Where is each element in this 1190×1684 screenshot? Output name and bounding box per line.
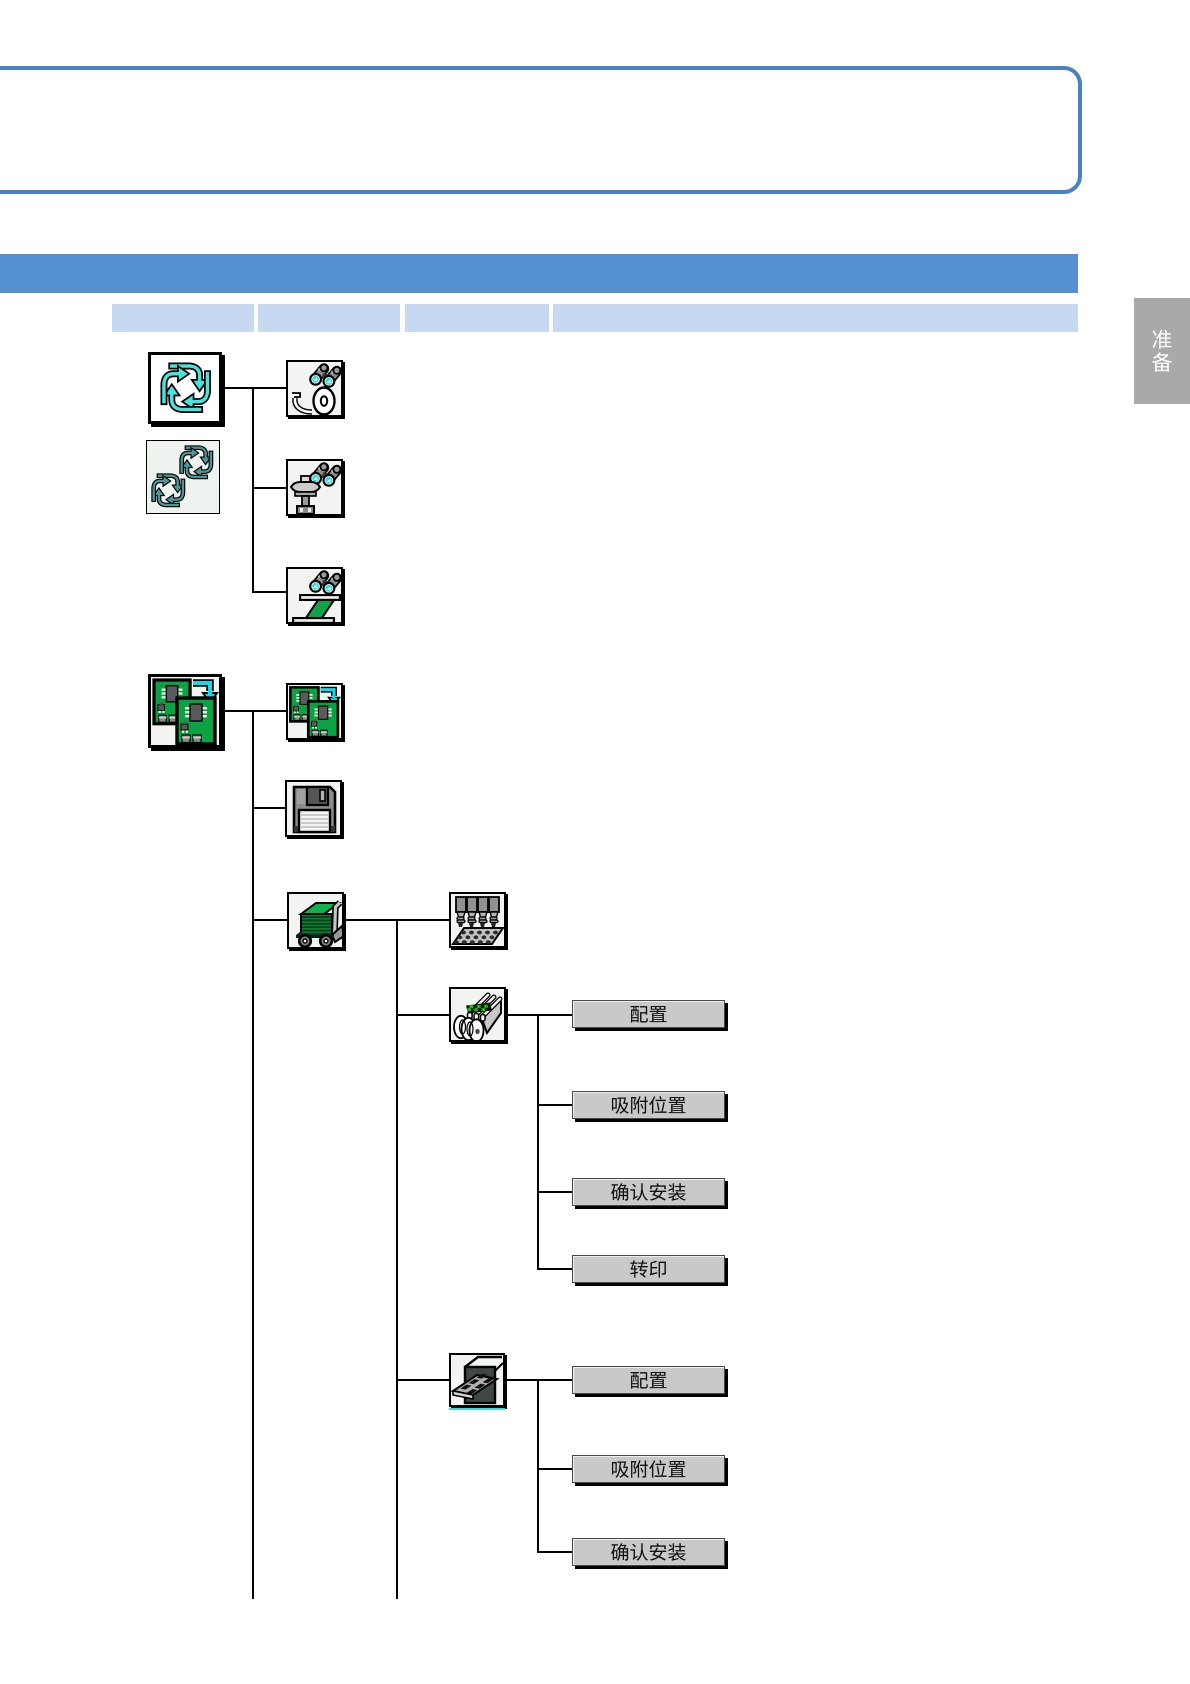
wire trunk2 to truck bbox=[252, 919, 288, 921]
icon board cart bbox=[287, 892, 344, 949]
button 吸附位置 bbox=[572, 1091, 725, 1119]
sidebar tab 准备 bbox=[1134, 298, 1190, 404]
wire trunk3 to feeder bbox=[396, 1014, 450, 1016]
icon feeder bbox=[449, 987, 506, 1042]
callout rounded box bbox=[0, 66, 1082, 194]
wire trunk1 to child C bbox=[252, 591, 287, 593]
wire truck to nozzle bbox=[344, 919, 450, 921]
button 转印 bbox=[572, 1255, 725, 1283]
wire trunk2 vertical bbox=[252, 710, 254, 1599]
wire trunk5 vertical bbox=[537, 1379, 539, 1553]
wire trunk4 to button 吸附位置 bbox=[537, 1104, 573, 1106]
wire trunk3 to tray bbox=[396, 1379, 450, 1381]
button 配置 bbox=[572, 1366, 725, 1394]
wire trunk1 vertical bbox=[252, 387, 254, 593]
wire trunk2 to floppy bbox=[252, 807, 287, 809]
icon check tape-reel bbox=[286, 360, 343, 417]
wire tray to buttons bbox=[505, 1379, 573, 1381]
icon tray bbox=[449, 1353, 505, 1407]
table header cells bbox=[112, 304, 254, 332]
wire trunk1 to child B bbox=[252, 487, 287, 489]
icon floppy save bbox=[285, 780, 342, 837]
icon check head bbox=[286, 459, 343, 516]
section title bar bbox=[0, 254, 1078, 293]
wire trunk3 vertical bbox=[396, 919, 398, 1599]
tray cyan underline bbox=[449, 1408, 505, 1410]
wire feeder to buttons bbox=[506, 1014, 573, 1016]
icon double-cycle bbox=[146, 440, 220, 514]
wire trunk5 to button 吸附位置2 bbox=[537, 1468, 573, 1470]
icon pcb-copy parent2 bbox=[148, 674, 222, 748]
wire trunk4 to button 转印 bbox=[537, 1268, 573, 1270]
wire parent2 to trunk2 bbox=[222, 710, 287, 712]
wire trunk5 to button 确认安装2 bbox=[537, 1551, 573, 1553]
wire trunk4 to button 确认安装 bbox=[537, 1191, 573, 1193]
wire parent1 to trunk1 bbox=[222, 387, 287, 389]
button 确认安装 bbox=[572, 1178, 725, 1206]
icon production-cycle parent1 bbox=[148, 352, 222, 424]
icon pcb-copy child bbox=[286, 683, 343, 740]
button 确认安装 bbox=[572, 1538, 725, 1566]
button 配置 bbox=[572, 1000, 725, 1028]
button 吸附位置 bbox=[572, 1455, 725, 1483]
icon nozzle station bbox=[449, 892, 506, 948]
icon check table bbox=[286, 567, 343, 624]
wire trunk4 vertical bbox=[537, 1014, 539, 1270]
